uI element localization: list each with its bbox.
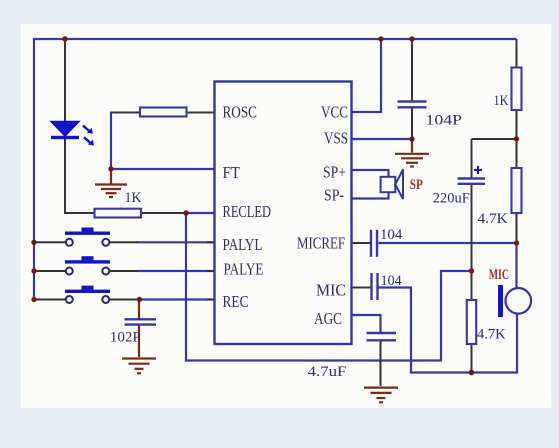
svg-text:VSS: VSS	[324, 129, 348, 148]
svg-text:4.7K: 4.7K	[477, 327, 506, 343]
svg-text:PALYL: PALYL	[223, 235, 263, 254]
svg-text:FT: FT	[223, 163, 241, 182]
svg-text:SP: SP	[410, 177, 423, 193]
svg-text:SP+: SP+	[323, 163, 346, 182]
svg-text:SP-: SP-	[324, 186, 344, 205]
svg-text:REC: REC	[223, 292, 249, 311]
svg-text:MIC: MIC	[489, 267, 509, 283]
svg-text:220uF: 220uF	[433, 191, 470, 207]
svg-text:MICREF: MICREF	[297, 234, 345, 253]
svg-text:MIC: MIC	[316, 281, 346, 300]
svg-text:1K: 1K	[494, 93, 509, 109]
svg-text:102P: 102P	[110, 330, 141, 346]
svg-text:PALYE: PALYE	[224, 260, 264, 279]
svg-text:104: 104	[381, 273, 403, 289]
svg-text:VCC: VCC	[321, 103, 348, 122]
svg-text:RECLED: RECLED	[223, 202, 272, 221]
svg-text:4.7K: 4.7K	[478, 211, 508, 227]
svg-text:104P: 104P	[426, 113, 463, 129]
svg-text:104: 104	[380, 227, 403, 243]
svg-text:4.7uF: 4.7uF	[308, 364, 347, 380]
svg-text:AGC: AGC	[314, 309, 342, 328]
svg-text:1K: 1K	[125, 190, 142, 206]
svg-text:ROSC: ROSC	[223, 103, 258, 122]
